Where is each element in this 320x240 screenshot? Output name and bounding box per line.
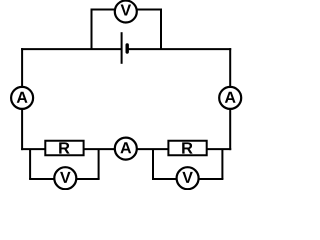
wire voltmeter branch over battery: top horizontal [91, 9, 163, 11]
wire voltmeter branch over battery: left vertical [91, 10, 93, 50]
wire bottom-right voltmeter branch: right vertical [221, 149, 223, 179]
ammeter A1 left branch [11, 87, 33, 109]
battery cell positive plate (long) [121, 32, 123, 64]
wire bottom-left voltmeter branch: right vertical [98, 149, 100, 179]
battery cell negative plate (short thick) [125, 45, 128, 52]
wire bottom-left voltmeter branch: bottom horizontal [29, 178, 100, 180]
wire bottom-left voltmeter branch: left vertical [29, 149, 31, 179]
voltmeter V1 across battery [115, 1, 137, 23]
wire bottom-right voltmeter branch: left vertical [152, 149, 154, 179]
ammeter A3 bottom centre [115, 138, 137, 160]
wire right side of main loop [229, 48, 231, 150]
resistor R2 bottom right box [168, 141, 206, 156]
voltmeter V2 across R1 [54, 167, 76, 189]
voltmeter V3 across R2 [177, 167, 199, 189]
ammeter A2 right branch [219, 87, 241, 109]
wire top side of main loop (battery to right corner) [128, 48, 231, 50]
wire voltmeter branch over battery: right vertical [160, 10, 162, 50]
wire left side of main loop [21, 48, 23, 150]
wire bottom side of main loop [21, 148, 231, 150]
wire bottom-right voltmeter branch: bottom horizontal [152, 178, 223, 180]
wire top side of main loop (left corner to battery) [21, 48, 121, 50]
resistor R1 bottom left box [45, 141, 83, 156]
